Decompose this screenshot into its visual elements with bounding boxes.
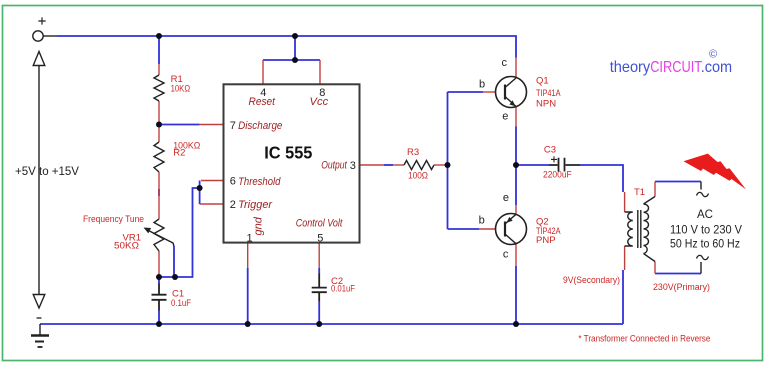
svg-text:0.01uF: 0.01uF xyxy=(331,284,355,295)
svg-text:NPN: NPN xyxy=(536,99,556,110)
svg-text:c: c xyxy=(502,57,508,69)
svg-text:* Transformer Connected in Rev: * Transformer Connected in Reverse xyxy=(578,334,710,345)
svg-text:c: c xyxy=(503,249,509,261)
svg-text:IC 555: IC 555 xyxy=(264,143,312,163)
svg-text:theoryCIRCUIT.com: theoryCIRCUIT.com xyxy=(610,59,732,76)
svg-text:50 Hz to 60 Hz: 50 Hz to 60 Hz xyxy=(670,239,740,251)
svg-text:Threshold: Threshold xyxy=(238,176,281,188)
svg-text:PNP: PNP xyxy=(536,235,556,246)
svg-text:50KΩ: 50KΩ xyxy=(114,241,139,252)
svg-text:AC: AC xyxy=(697,209,713,221)
svg-text:©: © xyxy=(709,49,717,61)
svg-text:b: b xyxy=(479,215,485,227)
svg-text:6: 6 xyxy=(230,176,236,188)
svg-text:R3: R3 xyxy=(407,147,419,158)
svg-text:Vcc: Vcc xyxy=(310,96,329,108)
svg-text:gnd: gnd xyxy=(253,216,265,235)
svg-text:b: b xyxy=(479,79,485,91)
svg-text:9V(Secondary): 9V(Secondary) xyxy=(563,275,620,286)
svg-text:7: 7 xyxy=(230,120,236,132)
svg-text:Output: Output xyxy=(321,159,347,171)
svg-text:2: 2 xyxy=(230,199,236,211)
svg-text:e: e xyxy=(502,111,508,123)
svg-text:e: e xyxy=(503,192,509,204)
svg-text:3: 3 xyxy=(350,160,356,172)
svg-text:5: 5 xyxy=(317,233,323,245)
svg-text:Discharge: Discharge xyxy=(238,120,282,132)
svg-text:R2: R2 xyxy=(173,148,185,159)
svg-text:10KΩ: 10KΩ xyxy=(171,84,191,95)
svg-text:TIP41A: TIP41A xyxy=(536,88,561,99)
svg-text:230V(Primary): 230V(Primary) xyxy=(653,282,710,293)
svg-text:100Ω: 100Ω xyxy=(408,171,428,182)
svg-text:Reset: Reset xyxy=(249,96,276,108)
svg-text:C3: C3 xyxy=(544,145,556,156)
svg-text:+5V to +15V: +5V to +15V xyxy=(15,166,79,178)
svg-text:T1: T1 xyxy=(634,187,645,198)
svg-text:2200uF: 2200uF xyxy=(543,170,572,181)
svg-text:0.1uF: 0.1uF xyxy=(171,298,191,309)
svg-text:110 V to 230 V: 110 V to 230 V xyxy=(670,225,742,237)
svg-text:Trigger: Trigger xyxy=(238,199,273,211)
svg-text:Control Volt: Control Volt xyxy=(296,218,343,230)
svg-text:Frequency Tune: Frequency Tune xyxy=(83,214,144,225)
svg-text:Q1: Q1 xyxy=(536,76,549,87)
